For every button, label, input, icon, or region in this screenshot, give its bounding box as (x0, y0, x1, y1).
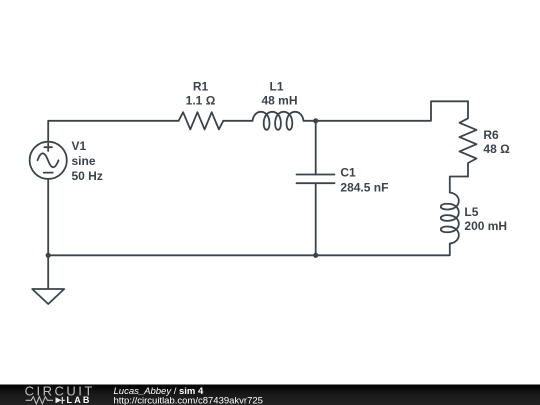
node junction dot at C1 top (313, 118, 318, 123)
svg-text:1.1 Ω: 1.1 Ω (186, 93, 216, 107)
inductor L5 (441, 193, 459, 244)
wire R6 to L5 (450, 177, 468, 193)
logo resistor zigzag glyph (26, 397, 53, 404)
svg-text:C1: C1 (340, 165, 356, 179)
svg-text:LAB: LAB (67, 395, 92, 405)
capacitor C1 top lead (315, 121, 317, 175)
wire R1 to L1 (223, 120, 252, 122)
capacitor C1 plates (297, 174, 335, 176)
ground (32, 289, 64, 304)
svg-text:http://circuitlab.com/c87439ak: http://circuitlab.com/c87439akvr725 (114, 396, 263, 405)
V1 plus (44, 143, 52, 151)
svg-text:50 Hz: 50 Hz (72, 169, 103, 183)
svg-text:sine: sine (72, 154, 96, 168)
node junction dot at ground (46, 253, 51, 258)
wire top-left from V1 to R1 (48, 121, 178, 142)
V1 sine mark (38, 153, 59, 167)
svg-text:48 mH: 48 mH (261, 93, 297, 107)
svg-text:L5: L5 (464, 205, 478, 219)
resistor R1 (179, 112, 224, 129)
voltage source V1 circle (30, 142, 67, 179)
V1 minus (44, 172, 53, 174)
node junction dot at C1 bottom (313, 253, 318, 258)
svg-text:R6: R6 (483, 128, 499, 142)
inductor L1 (253, 112, 304, 130)
svg-text:R1: R1 (193, 80, 209, 94)
svg-text:200 mH: 200 mH (464, 219, 507, 233)
svg-text:V1: V1 (72, 139, 87, 153)
svg-text:48 Ω: 48 Ω (483, 142, 510, 156)
logo diode arrow glyph (56, 397, 62, 403)
capacitor C1 bottom lead (315, 183, 317, 255)
CircuitLab logo wordmark CIRCUIT (25, 384, 95, 405)
resistor R6 (460, 101, 477, 176)
svg-text:284.5 nF: 284.5 nF (340, 180, 388, 194)
footer bar (0, 385, 540, 405)
wire L1 to node and right (304, 101, 469, 121)
V1 bottom lead (47, 179, 49, 255)
wire L5 to bottom rail (48, 244, 450, 256)
ground stem (47, 255, 49, 289)
svg-text:L1: L1 (269, 80, 283, 94)
